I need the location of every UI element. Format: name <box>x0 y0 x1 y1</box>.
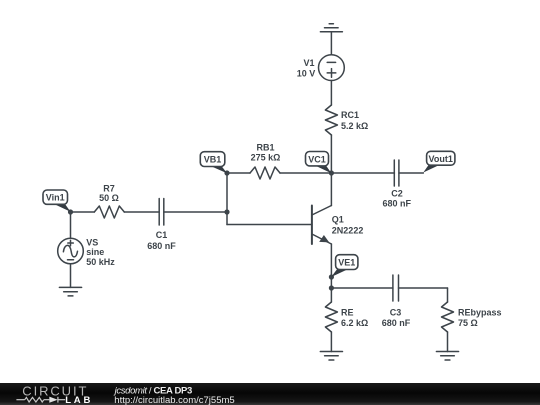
svg-text:2N2222: 2N2222 <box>332 226 364 236</box>
svg-text:LAB: LAB <box>65 395 93 405</box>
svg-text:680 nF: 680 nF <box>382 199 411 209</box>
svg-text:C3: C3 <box>390 308 402 318</box>
svg-text:5.2 kΩ: 5.2 kΩ <box>341 121 368 131</box>
svg-text:sine: sine <box>86 247 104 257</box>
svg-text:10 V: 10 V <box>297 68 316 78</box>
svg-text:VB1: VB1 <box>204 155 222 165</box>
svg-text:C1: C1 <box>156 230 168 240</box>
svg-text:75 Ω: 75 Ω <box>458 318 478 328</box>
svg-text:680 nF: 680 nF <box>382 318 411 328</box>
svg-text:Q1: Q1 <box>332 215 344 225</box>
svg-text:VC1: VC1 <box>308 154 326 164</box>
svg-text:VE1: VE1 <box>338 258 355 268</box>
svg-text:RE: RE <box>341 308 354 318</box>
svg-text:C2: C2 <box>391 189 403 199</box>
svg-text:Vout1: Vout1 <box>429 154 453 164</box>
svg-text:Vin1: Vin1 <box>46 193 65 203</box>
svg-text:680 nF: 680 nF <box>147 241 176 251</box>
svg-text:6.2 kΩ: 6.2 kΩ <box>341 318 368 328</box>
svg-text:275 kΩ: 275 kΩ <box>251 153 281 163</box>
svg-text:V1: V1 <box>303 58 314 68</box>
svg-text:50 kHz: 50 kHz <box>86 257 115 267</box>
svg-text:REbypass: REbypass <box>458 308 502 318</box>
svg-text:RB1: RB1 <box>256 143 274 153</box>
svg-text:http://circuitlab.com/c7j55m5: http://circuitlab.com/c7j55m5 <box>114 395 234 405</box>
svg-text:RC1: RC1 <box>341 110 359 120</box>
svg-text:50 Ω: 50 Ω <box>99 193 119 203</box>
svg-text:R7: R7 <box>103 183 115 193</box>
